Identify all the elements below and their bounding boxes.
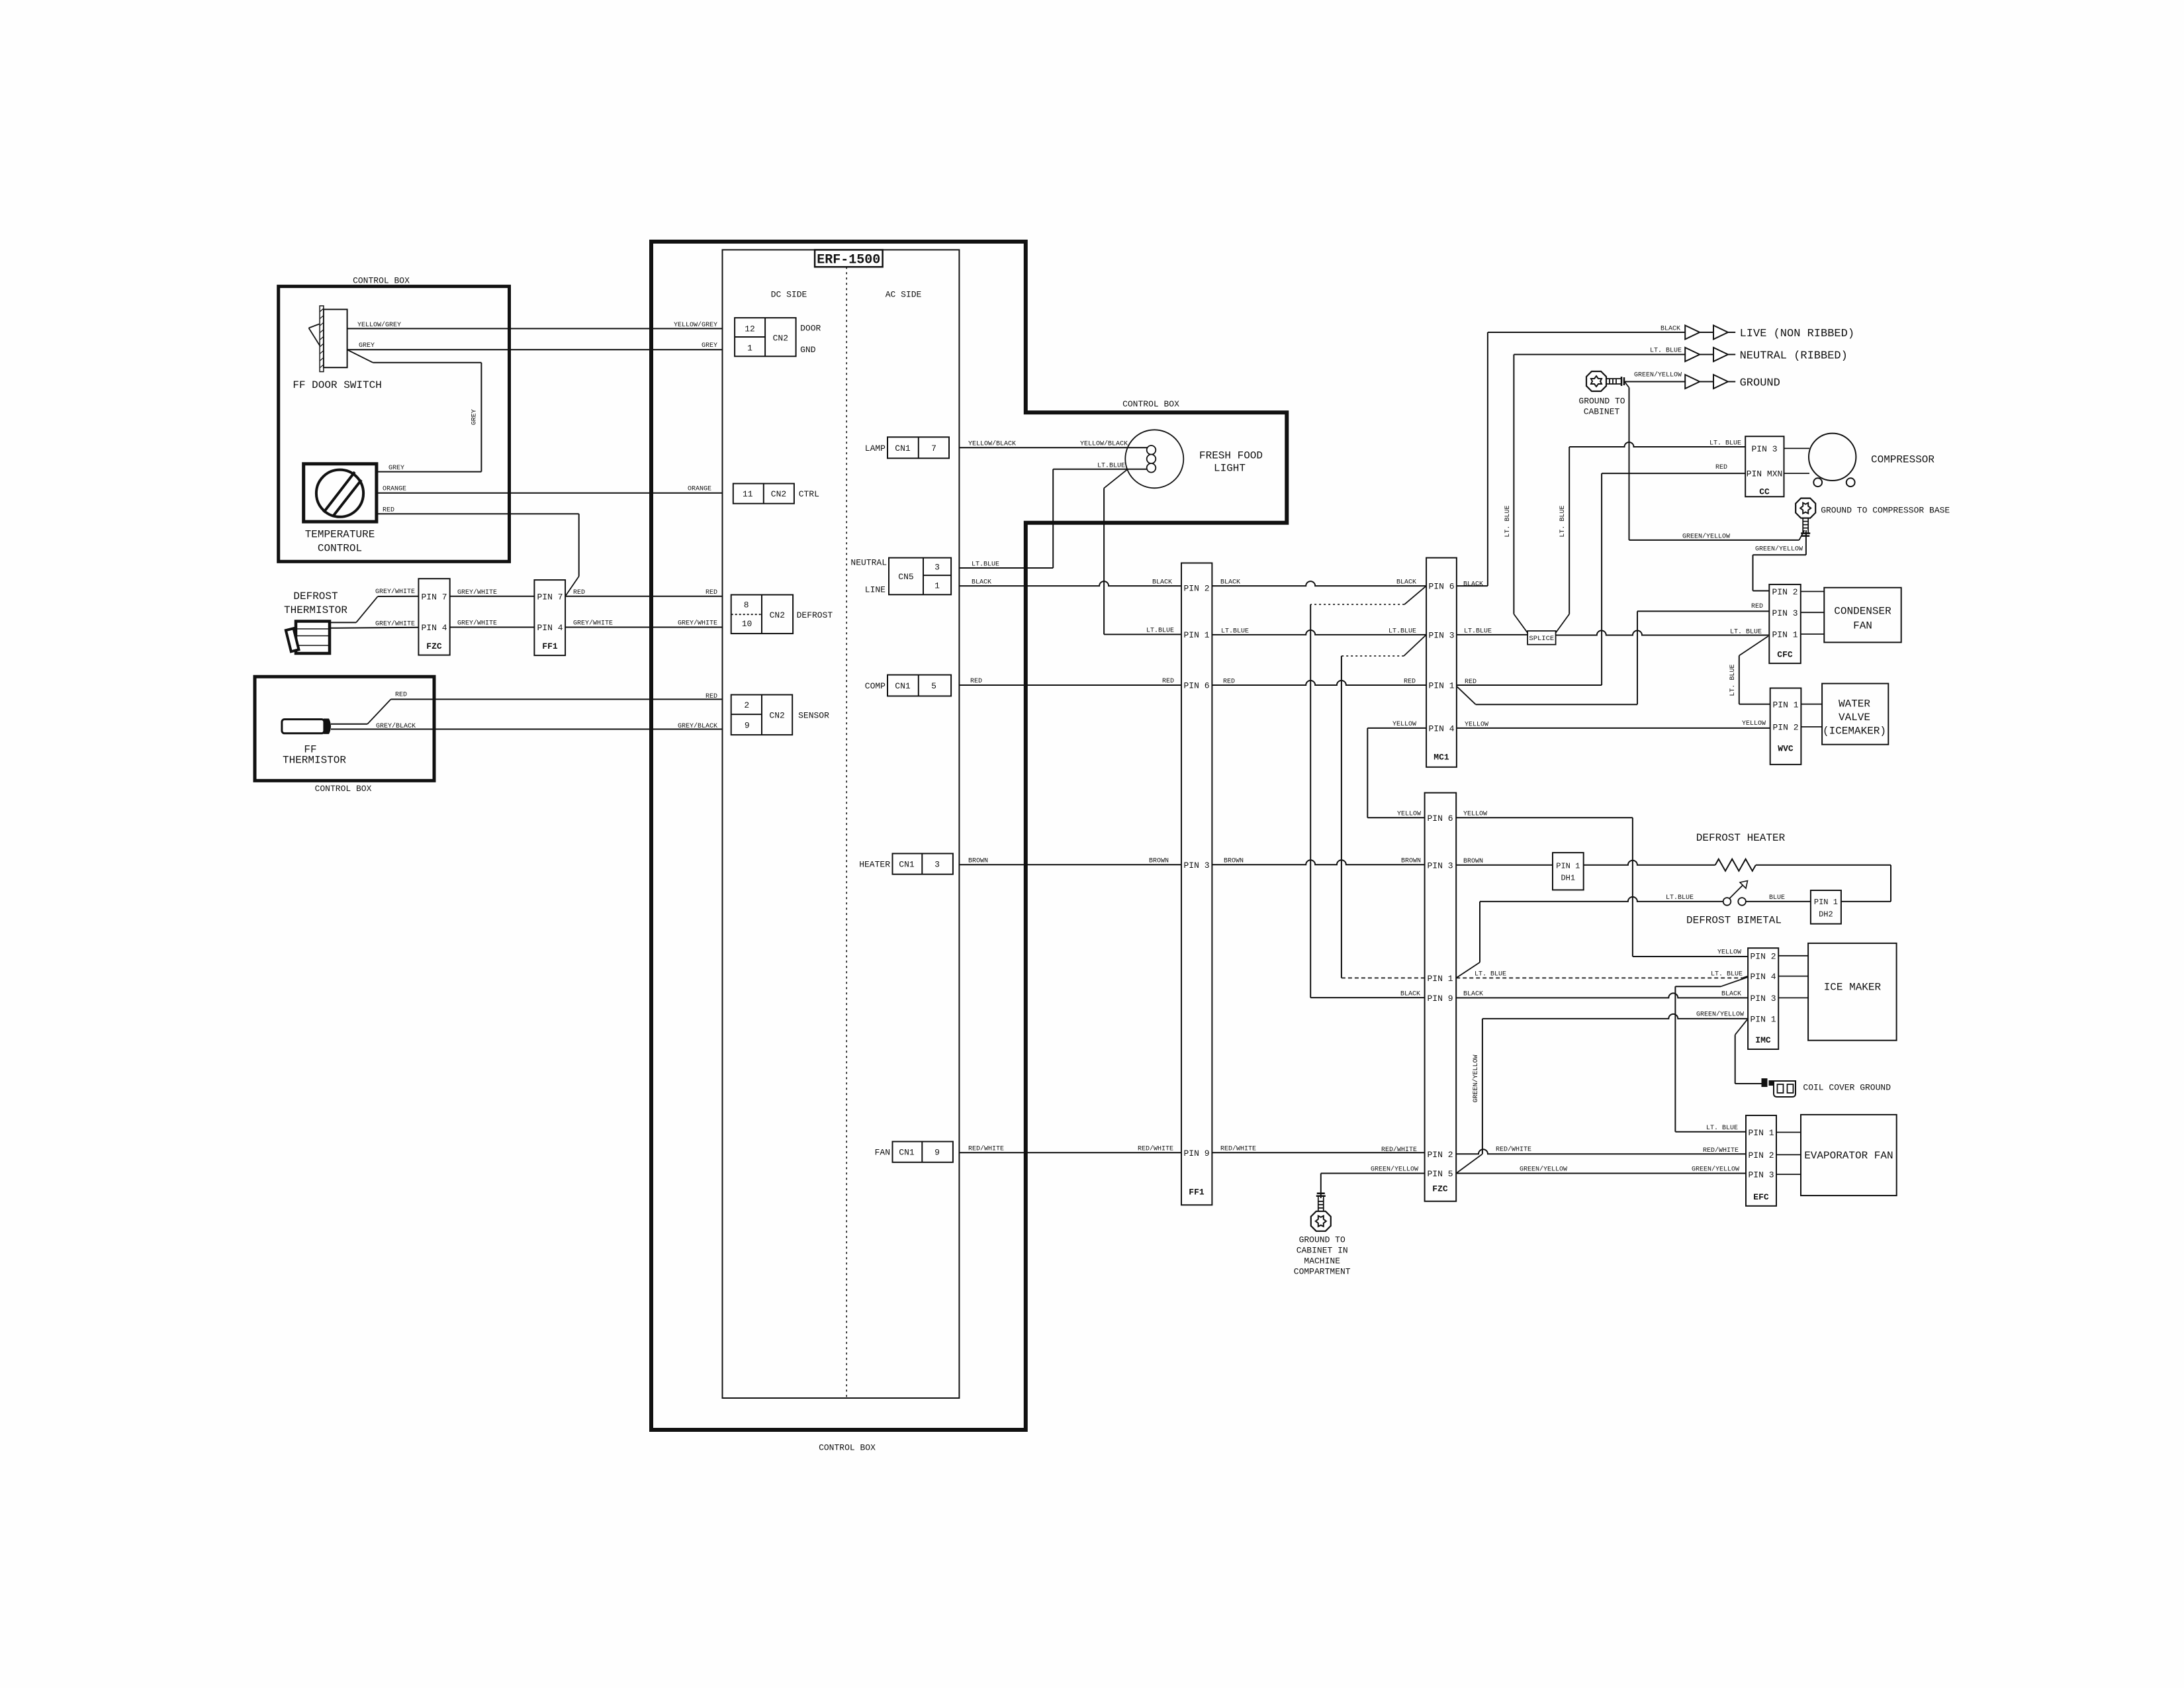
svg-text:GREY/WHITE: GREY/WHITE [457, 620, 497, 628]
svg-text:EVAPORATOR FAN: EVAPORATOR FAN [1804, 1150, 1893, 1162]
node NEUTRAL (RIBBED) [1685, 348, 1848, 363]
svg-text:MACHINE: MACHINE [1304, 1256, 1340, 1266]
wire YELLOW FZC pin6 to IMC pin2 [1456, 811, 1748, 957]
svg-text:FF DOOR SWITCH: FF DOOR SWITCH [293, 379, 381, 391]
svg-text:LT. BLUE: LT. BLUE [1730, 628, 1762, 635]
connector FZC (2-pin) [418, 579, 449, 655]
svg-text:GREEN/YELLOW: GREEN/YELLOW [1371, 1166, 1418, 1174]
svg-text:BROWN: BROWN [1401, 858, 1421, 865]
svg-text:1: 1 [747, 344, 752, 353]
svg-text:CN2: CN2 [769, 711, 784, 721]
wire GREEN/YELLOW FZC pin5 to EFC pin3 [1456, 1166, 1746, 1174]
connector CN2 SENSOR (pins 2,9) [731, 695, 829, 735]
FF thermistor RT2 [282, 719, 347, 767]
svg-text:PIN 9: PIN 9 [1427, 994, 1453, 1004]
node LIVE (NON RIBBED) [1685, 326, 1854, 341]
svg-text:BLACK: BLACK [1721, 991, 1741, 998]
svg-text:PIN 1: PIN 1 [1748, 1128, 1774, 1138]
wire RED MC1 pin1 to CFC pin3 [1457, 603, 1769, 704]
svg-text:LAMP: LAMP [865, 444, 886, 453]
evaporator fan M3 [1776, 1115, 1897, 1196]
svg-text:10: 10 [742, 619, 752, 629]
svg-text:DEFROST HEATER: DEFROST HEATER [1696, 832, 1786, 844]
connector CN1 LAMP (pin 7) [865, 437, 949, 458]
svg-text:GREY/WHITE: GREY/WHITE [457, 588, 497, 596]
svg-text:CABINET: CABINET [1584, 407, 1620, 417]
svg-text:CN1: CN1 [895, 681, 911, 691]
wire LT.BLUE FZC pin1 to defrost bimetal [1456, 902, 1480, 978]
svg-text:BLACK: BLACK [972, 579, 991, 586]
wire GREY/WHITE FZC pin4 to FF1 pin4 [450, 620, 535, 628]
svg-text:GREEN/YELLOW: GREEN/YELLOW [1472, 1055, 1480, 1103]
svg-text:ORANGE: ORANGE [688, 486, 711, 493]
wire RED CN1-5 to FF1 pin6 [959, 678, 1181, 685]
connector CN1 FAN (pin 9) [875, 1142, 953, 1162]
coil cover ground [1762, 1078, 1891, 1097]
temperature control TC1 [304, 464, 377, 555]
svg-text:GREEN/YELLOW: GREEN/YELLOW [1520, 1166, 1567, 1174]
svg-text:FF1: FF1 [1189, 1188, 1205, 1197]
svg-text:YELLOW/GREY: YELLOW/GREY [674, 321, 717, 329]
svg-text:12: 12 [745, 324, 755, 334]
svg-text:THERMISTOR: THERMISTOR [283, 755, 346, 767]
wire RED/WHITE CN1-9 to FF1 pin9 [959, 1145, 1181, 1153]
wire GREY door switch to temperature control [347, 350, 482, 472]
svg-text:LT. BLUE: LT. BLUE [1729, 665, 1737, 696]
svg-text:RED/WHITE: RED/WHITE [968, 1145, 1004, 1153]
svg-text:CONTROL: CONTROL [318, 543, 362, 555]
wire YELLOW/BLACK CN1-7 to fresh food light [959, 440, 1148, 448]
wire GREEN/YELLOW compressor base ground to CFC pin2 [1753, 530, 1806, 591]
svg-text:RED: RED [705, 693, 717, 700]
svg-text:RED/WHITE: RED/WHITE [1138, 1145, 1173, 1153]
svg-text:PIN 3: PIN 3 [1750, 994, 1776, 1004]
svg-text:YELLOW/GREY: YELLOW/GREY [357, 321, 401, 329]
svg-text:RED: RED [1223, 679, 1235, 686]
svg-text:COMPRESSOR: COMPRESSOR [1871, 454, 1934, 466]
svg-text:GND: GND [800, 345, 816, 355]
wire GREEN/YELLOW ground-to-cabinet to GROUND [1625, 371, 1685, 382]
svg-text:GREY/BLACK: GREY/BLACK [678, 722, 717, 730]
svg-text:PIN 3: PIN 3 [1748, 1170, 1774, 1180]
connector DH1 [1553, 853, 1584, 890]
wire LT.BLUE MC1 pin3 to splice [1457, 628, 1527, 635]
wire GREEN/YELLOW FZC pin5 to ground (machine compartment) [1321, 1166, 1425, 1199]
wire LT.BLUE neutral vertical to splice [1504, 348, 1685, 633]
svg-text:LT. BLUE: LT. BLUE [1709, 440, 1741, 447]
svg-text:RED: RED [1751, 603, 1763, 610]
svg-text:LT. BLUE: LT. BLUE [1711, 971, 1743, 978]
svg-text:BLUE: BLUE [1769, 894, 1785, 902]
wire LT.BLUE splice to CFC pin1 [1556, 628, 1770, 635]
connector DH2 [1811, 890, 1841, 924]
svg-text:PIN 4: PIN 4 [421, 623, 447, 633]
svg-text:PIN 7: PIN 7 [421, 592, 447, 602]
svg-text:COMP: COMP [865, 681, 886, 691]
svg-text:PIN 9: PIN 9 [1183, 1149, 1209, 1158]
wire RED FF1 pin6 to MC1 pin1 [1212, 679, 1426, 686]
svg-text:PIN 1: PIN 1 [1772, 630, 1797, 640]
svg-text:CFC: CFC [1777, 649, 1793, 659]
svg-text:GREEN/YELLOW: GREEN/YELLOW [1682, 533, 1730, 541]
svg-text:PIN 3: PIN 3 [1428, 631, 1454, 641]
wire LT.BLUE CFC pin1 to WVC pin1 [1729, 636, 1770, 704]
water valve (icemaker) [1801, 684, 1888, 745]
svg-text:NEUTRAL (RIBBED): NEUTRAL (RIBBED) [1740, 350, 1848, 363]
svg-text:5: 5 [931, 681, 936, 691]
svg-text:PIN 1: PIN 1 [1750, 1015, 1776, 1025]
wire LT.BLUE FZC pin1 to IMC pin4 [1456, 971, 1748, 978]
connector CN5 NEUTRAL LINE (pins 3,1) [850, 558, 951, 595]
connector CFC (condenser fan) [1769, 585, 1801, 663]
wire LT.BLUE MC1 pin3 jog to FZC pin1 (via vertical) [1342, 635, 1426, 978]
svg-text:CTRL: CTRL [799, 489, 819, 499]
svg-text:DEFROST: DEFROST [797, 610, 833, 620]
wire GREY/WHITE FZC pin7 to FF1 pin7 [450, 588, 535, 596]
svg-text:LT. BLUE: LT. BLUE [1706, 1125, 1738, 1132]
wire YELLOW/GREY door switch to CN2-12 [347, 321, 723, 329]
svg-text:HEATER: HEATER [859, 860, 890, 870]
svg-text:MC1: MC1 [1433, 753, 1449, 763]
svg-text:LT. BLUE: LT. BLUE [1475, 971, 1506, 978]
ice maker [1778, 943, 1896, 1041]
svg-text:LINE: LINE [865, 585, 886, 595]
svg-text:GREEN/YELLOW: GREEN/YELLOW [1692, 1166, 1739, 1174]
connector CC (compressor) [1745, 436, 1784, 496]
svg-text:PIN 3: PIN 3 [1751, 444, 1777, 454]
wire LT.BLUE fresh food light to FF1 pin1 [1104, 469, 1181, 635]
svg-text:PIN 1: PIN 1 [1427, 974, 1453, 984]
svg-text:PIN 6: PIN 6 [1183, 681, 1209, 691]
svg-text:DEFROST: DEFROST [293, 590, 338, 602]
svg-text:PIN 3: PIN 3 [1183, 861, 1209, 870]
wire GREEN/YELLOW ground-to-cabinet to compressor base [1625, 382, 1805, 541]
svg-text:BLACK: BLACK [1463, 581, 1483, 588]
svg-text:FAN: FAN [875, 1148, 890, 1158]
svg-text:BLACK: BLACK [1463, 991, 1483, 998]
svg-text:RED: RED [1162, 678, 1174, 685]
wire ORANGE temperature control to CN2-11 [377, 486, 723, 493]
svg-text:GROUND TO COMPRESSOR BASE: GROUND TO COMPRESSOR BASE [1821, 506, 1950, 516]
control box (ERF-1500 board + fresh food light) [651, 242, 1287, 1453]
svg-text:YELLOW/BLACK: YELLOW/BLACK [968, 440, 1016, 448]
connector WVC (water valve) [1770, 688, 1801, 765]
svg-text:RED/WHITE: RED/WHITE [1703, 1147, 1739, 1154]
svg-text:11: 11 [743, 489, 753, 499]
svg-text:CN1: CN1 [899, 860, 915, 870]
ground to cabinet in machine compartment [1294, 1194, 1351, 1277]
svg-text:PIN 2: PIN 2 [1772, 723, 1798, 733]
svg-text:YELLOW: YELLOW [1742, 720, 1766, 727]
svg-text:RED: RED [705, 589, 717, 596]
wire GREEN/YELLOW IMC pin1 to coil cover ground [1735, 1019, 1762, 1084]
svg-text:LIGHT: LIGHT [1214, 463, 1246, 475]
svg-text:COMPARTMENT: COMPARTMENT [1294, 1267, 1351, 1277]
wire GREEN/YELLOW FZC pin5 to IMC pin1 [1456, 1011, 1748, 1174]
svg-text:GREY/WHITE: GREY/WHITE [375, 588, 415, 596]
svg-text:YELLOW: YELLOW [1397, 811, 1421, 818]
svg-text:CN1: CN1 [899, 1148, 915, 1158]
wire BROWN CN1-3 to FF1 pin3 [959, 858, 1181, 865]
svg-text:RED/WHITE: RED/WHITE [1381, 1146, 1417, 1154]
svg-text:RED: RED [395, 692, 407, 699]
svg-text:NEUTRAL: NEUTRAL [850, 558, 887, 568]
connector FF1 (2-pin) [534, 580, 565, 655]
wire GREY/BLACK FF thermistor to CN2-9 [331, 722, 723, 730]
svg-text:RED/WHITE: RED/WHITE [1220, 1145, 1256, 1153]
connector CN2 DEFROST (pins 8,10) [731, 595, 833, 634]
svg-text:LT.BLUE: LT.BLUE [972, 561, 999, 569]
wire YELLOW MC1 pin4 to FZC pin6 [1367, 721, 1426, 818]
svg-text:ICE MAKER: ICE MAKER [1824, 982, 1882, 994]
svg-text:CONDENSER: CONDENSER [1834, 606, 1891, 618]
wire BROWN FF1 pin3 to FZC pin3 [1212, 858, 1424, 865]
svg-text:GREY: GREY [388, 465, 404, 472]
ground to compressor base [1796, 498, 1950, 536]
wire LT.BLUE fresh food light to CN5-3 [959, 463, 1147, 569]
defrost bimetal SW1 [1480, 881, 1811, 927]
svg-text:EFC: EFC [1753, 1192, 1769, 1202]
svg-text:CN2: CN2 [771, 489, 786, 499]
defrost thermistor RT1 [284, 590, 347, 653]
svg-text:PIN 1: PIN 1 [1556, 862, 1580, 871]
svg-text:BLACK: BLACK [1220, 579, 1240, 586]
svg-text:GREEN/YELLOW: GREEN/YELLOW [1696, 1011, 1744, 1019]
wire GREY/WHITE defrost thermistor to FZC pin7 [330, 588, 418, 622]
svg-text:CN2: CN2 [773, 334, 788, 344]
svg-text:LT.BLUE: LT.BLUE [1388, 628, 1416, 635]
svg-text:WVC: WVC [1778, 744, 1794, 754]
svg-text:9: 9 [934, 1148, 940, 1158]
svg-text:LT.BLUE: LT.BLUE [1221, 628, 1249, 635]
svg-text:AC SIDE: AC SIDE [886, 290, 922, 300]
svg-text:LT.BLUE: LT.BLUE [1666, 894, 1694, 902]
svg-text:8: 8 [744, 600, 749, 610]
svg-text:3: 3 [934, 860, 940, 870]
svg-text:PIN 2: PIN 2 [1772, 587, 1797, 597]
svg-text:GREY: GREY [702, 342, 717, 350]
wire GREY door switch to CN2-1 [347, 342, 723, 350]
svg-text:CN2: CN2 [770, 610, 785, 620]
wire RED temperature control to FF1 pin7 [377, 506, 579, 596]
svg-text:DH2: DH2 [1819, 910, 1833, 919]
svg-text:GREY: GREY [359, 342, 375, 350]
svg-text:CONTROL BOX: CONTROL BOX [819, 1443, 876, 1453]
svg-text:SENSOR: SENSOR [798, 711, 829, 721]
svg-text:BROWN: BROWN [1224, 858, 1244, 865]
svg-text:FRESH FOOD: FRESH FOOD [1199, 450, 1263, 462]
svg-text:GROUND TO: GROUND TO [1299, 1235, 1345, 1245]
svg-text:CC: CC [1759, 487, 1770, 496]
svg-text:PIN 4: PIN 4 [1750, 972, 1776, 982]
svg-text:DEFROST BIMETAL: DEFROST BIMETAL [1686, 915, 1782, 927]
svg-text:LT.BLUE: LT.BLUE [1464, 628, 1492, 635]
wire LT. BLUE IMC pin4 to EFC pin1 [1675, 977, 1748, 1132]
connector FF1 (9-pin strip) [1181, 563, 1212, 1205]
svg-text:CN5: CN5 [898, 572, 913, 582]
svg-text:PIN 4: PIN 4 [1428, 724, 1454, 734]
wire RED FF thermistor to CN2-2 [331, 692, 723, 724]
connector IMC (ice maker) [1748, 948, 1778, 1049]
svg-text:2: 2 [744, 700, 749, 710]
wire LT.BLUE FF1 pin1 to MC1 pin3 [1212, 628, 1426, 635]
wire RED MC1 pin1 to CC pin MXN [1457, 464, 1745, 686]
connector FZC (9-pin strip) [1425, 793, 1457, 1201]
svg-text:PIN MXN: PIN MXN [1747, 469, 1783, 479]
splice SP1 [1527, 631, 1556, 645]
connector CN2 DOOR/GND (pins 12,1) [735, 318, 821, 356]
svg-text:BROWN: BROWN [1463, 858, 1483, 865]
svg-text:RED: RED [1465, 679, 1477, 686]
svg-text:FZC: FZC [426, 641, 442, 651]
svg-text:CONTROL BOX: CONTROL BOX [1122, 399, 1179, 409]
svg-text:COIL COVER GROUND: COIL COVER GROUND [1803, 1083, 1891, 1093]
svg-text:GREEN/YELLOW: GREEN/YELLOW [1755, 545, 1803, 553]
wire RED/WHITE FF1 pin9 to FZC pin2 [1212, 1145, 1424, 1154]
svg-text:BLACK: BLACK [1396, 579, 1416, 586]
svg-text:THERMISTOR: THERMISTOR [284, 604, 347, 616]
switch S1 FF DOOR SWITCH [293, 306, 381, 391]
svg-text:PIN 3: PIN 3 [1427, 861, 1453, 870]
svg-text:DOOR: DOOR [800, 324, 821, 334]
connector EFC (evaporator fan) [1746, 1115, 1776, 1206]
ground to cabinet [1578, 371, 1625, 417]
svg-text:GROUND TO: GROUND TO [1578, 397, 1625, 406]
svg-text:PIN 5: PIN 5 [1427, 1169, 1453, 1179]
svg-text:VALVE: VALVE [1839, 712, 1870, 724]
wire YELLOW MC1 pin4 to WVC pin2 [1457, 720, 1770, 729]
svg-text:PIN 2: PIN 2 [1427, 1150, 1453, 1160]
svg-text:YELLOW: YELLOW [1392, 721, 1416, 728]
svg-text:YELLOW/BLACK: YELLOW/BLACK [1080, 440, 1128, 448]
svg-text:LIVE (NON RIBBED): LIVE (NON RIBBED) [1740, 328, 1854, 340]
svg-text:CONTROL BOX: CONTROL BOX [353, 276, 410, 286]
svg-text:PIN 4: PIN 4 [537, 623, 563, 633]
svg-text:1: 1 [934, 581, 940, 590]
svg-text:PIN 6: PIN 6 [1428, 582, 1454, 592]
svg-text:CONTROL BOX: CONTROL BOX [315, 784, 372, 794]
svg-text:PIN 1: PIN 1 [1772, 700, 1798, 710]
svg-text:GREEN/YELLOW: GREEN/YELLOW [1634, 371, 1682, 379]
svg-text:BLACK: BLACK [1661, 326, 1680, 333]
wire BLACK MC1 pin6 jog to FZC pin9 (via vertical) [1310, 586, 1426, 998]
svg-text:BLACK: BLACK [1152, 579, 1172, 586]
control box (FF door switch / temperature control) [279, 276, 510, 562]
svg-text:PIN 1: PIN 1 [1814, 898, 1838, 907]
svg-text:GREY: GREY [471, 409, 478, 425]
svg-text:SPLICE: SPLICE [1529, 635, 1554, 643]
svg-text:LT. BLUE: LT. BLUE [1504, 506, 1512, 538]
svg-text:PIN 7: PIN 7 [537, 592, 563, 602]
svg-text:FAN: FAN [1853, 620, 1872, 632]
svg-text:BLACK: BLACK [1400, 991, 1420, 998]
svg-text:BROWN: BROWN [1149, 858, 1169, 865]
svg-text:9: 9 [745, 720, 750, 730]
svg-text:PIN 2: PIN 2 [1183, 583, 1209, 593]
svg-text:PIN 1: PIN 1 [1183, 630, 1209, 640]
svg-text:PIN 1: PIN 1 [1428, 681, 1454, 691]
svg-text:(ICEMAKER): (ICEMAKER) [1823, 726, 1886, 737]
svg-text:PIN 6: PIN 6 [1427, 814, 1453, 823]
svg-text:WATER: WATER [1839, 698, 1870, 710]
compressor M1 [1784, 434, 1935, 487]
svg-text:LT. BLUE: LT. BLUE [1650, 348, 1682, 355]
wire LT.BLUE splice to CC pin3 [1556, 440, 1746, 633]
wire RED FF1 pin7 to CN2-8 [565, 589, 722, 596]
connector CN1 COMP (pin 5) [865, 675, 951, 696]
svg-text:TEMPERATURE: TEMPERATURE [305, 529, 375, 541]
svg-text:ORANGE: ORANGE [383, 486, 406, 493]
svg-text:RED/WHITE: RED/WHITE [1496, 1146, 1531, 1154]
control box (FF thermistor) [255, 677, 434, 794]
svg-text:CN1: CN1 [895, 444, 911, 453]
svg-text:CABINET IN: CABINET IN [1297, 1246, 1348, 1256]
svg-text:YELLOW: YELLOW [1465, 722, 1488, 729]
svg-text:GREY/BLACK: GREY/BLACK [376, 722, 416, 730]
wire BLACK MC1 pin6 to LIVE [1457, 326, 1685, 588]
condenser fan M2 [1801, 588, 1901, 643]
wire RED/WHITE FZC pin2 to EFC pin2 [1456, 1146, 1746, 1155]
svg-text:GREY/WHITE: GREY/WHITE [375, 620, 415, 628]
connector CN1 HEATER (pin 3) [859, 853, 953, 874]
svg-text:YELLOW: YELLOW [1717, 949, 1741, 957]
wire GREY/WHITE defrost thermistor to FZC pin4 [330, 620, 418, 628]
svg-text:RED: RED [1715, 464, 1727, 471]
svg-text:ERF-1500: ERF-1500 [817, 253, 880, 268]
svg-text:DH1: DH1 [1561, 874, 1575, 883]
wire BLACK CN5-1 to FF1 pin2 [959, 579, 1181, 586]
ERF-1500 board U1 [723, 250, 960, 1398]
svg-text:GROUND: GROUND [1740, 377, 1780, 390]
wire BLACK FZC pin9 to IMC pin3 [1456, 991, 1748, 998]
svg-text:GREY/WHITE: GREY/WHITE [573, 620, 613, 628]
svg-text:PIN 2: PIN 2 [1748, 1150, 1774, 1160]
svg-text:3: 3 [934, 563, 940, 573]
svg-text:PIN 2: PIN 2 [1750, 951, 1776, 961]
wire GREY/WHITE FF1 pin4 to CN2-10 [565, 620, 722, 628]
wire BLACK FF1 pin2 to MC1 pin6 [1212, 579, 1426, 586]
svg-text:LT. BLUE: LT. BLUE [1559, 506, 1567, 538]
svg-text:RED: RED [383, 506, 394, 514]
svg-text:PIN 3: PIN 3 [1772, 608, 1797, 618]
svg-text:RED: RED [573, 589, 585, 596]
svg-text:FF1: FF1 [542, 641, 558, 651]
svg-text:GREY/WHITE: GREY/WHITE [678, 620, 717, 628]
svg-text:LT.BLUE: LT.BLUE [1146, 628, 1174, 635]
svg-text:RED: RED [1404, 679, 1416, 686]
svg-text:RED: RED [970, 678, 982, 685]
svg-text:FZC: FZC [1432, 1184, 1448, 1194]
svg-text:7: 7 [931, 444, 936, 453]
svg-text:IMC: IMC [1755, 1035, 1771, 1045]
svg-text:BROWN: BROWN [968, 858, 988, 865]
svg-text:YELLOW: YELLOW [1463, 811, 1487, 818]
lamp L1 FRESH FOOD LIGHT [1125, 430, 1263, 488]
defrost heater R1 [1456, 832, 1891, 902]
node GROUND [1685, 375, 1780, 390]
svg-text:DC SIDE: DC SIDE [771, 290, 807, 300]
connector MC1 (strip) [1426, 558, 1457, 767]
svg-text:LT.BLUE: LT.BLUE [1097, 463, 1125, 470]
connector CN2 CTRL (pin 11) [733, 484, 819, 504]
